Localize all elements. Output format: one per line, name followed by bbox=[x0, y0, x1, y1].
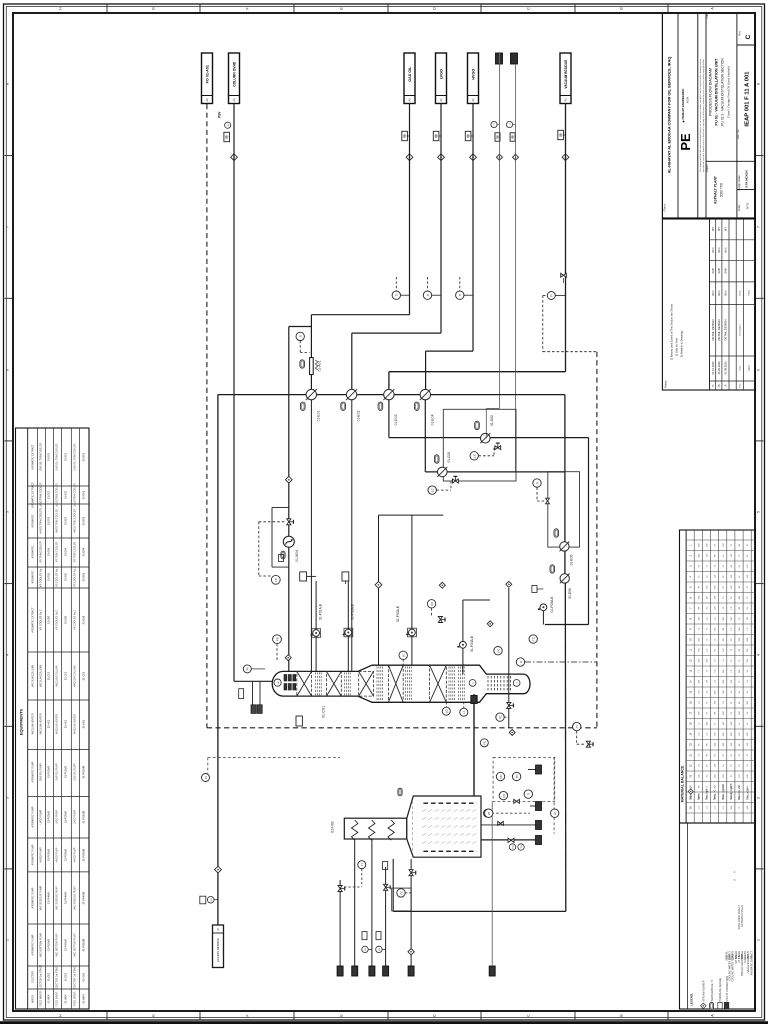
svg-text:GAS OIL TRIM COOLER: GAS OIL TRIM COOLER bbox=[56, 443, 59, 470]
svg-text:VACUUM COLUMN: VACUUM COLUMN bbox=[74, 665, 77, 686]
gauge on excess residue line bbox=[207, 896, 214, 903]
wire: hvgo product line bbox=[472, 104, 474, 352]
flow controller near boot bbox=[494, 647, 502, 655]
svg-text:01-C01: 01-C01 bbox=[82, 671, 86, 680]
material balance table outline bbox=[680, 530, 756, 823]
mixer 01-W04 bbox=[283, 536, 294, 547]
diamond gas oil line bbox=[406, 154, 413, 161]
scan edge black strip bottom bbox=[0, 1021, 768, 1024]
svg-text:PG: PG bbox=[365, 948, 367, 951]
svg-text:NTS: NTS bbox=[746, 203, 750, 209]
svg-text:PRESSURE, kg/cm2g: PRESSURE, kg/cm2g bbox=[719, 977, 722, 1001]
svg-text:TI: TI bbox=[575, 725, 579, 728]
pump 01-P02A/B bbox=[344, 628, 353, 637]
svg-text:TI: TI bbox=[535, 482, 539, 485]
svg-text:01-H01: 01-H01 bbox=[82, 719, 86, 728]
combustion control instruments bbox=[496, 772, 504, 780]
svg-text:FO 01-A01: FO 01-A01 bbox=[206, 65, 210, 83]
svg-text:MATERIAL BALANCE: MATERIAL BALANCE bbox=[681, 765, 685, 802]
equipment table row lines bbox=[36, 428, 38, 1009]
svg-text:SAB: SAB bbox=[724, 268, 728, 273]
svg-text:reproduced, copied or loaned,: reproduced, copied or loaned, used, or d… bbox=[702, 58, 705, 172]
pump 01-P04A/B bbox=[460, 641, 467, 648]
svg-text:VACUUM HEATER: VACUUM HEATER bbox=[74, 714, 77, 735]
svg-text:01-E03: 01-E03 bbox=[394, 414, 398, 425]
svg-text:01-P05A/B: 01-P05A/B bbox=[65, 939, 68, 951]
svg-text:01-E02: 01-E02 bbox=[48, 490, 51, 499]
tag box cws line bbox=[495, 133, 500, 141]
svg-text:01-E06: 01-E06 bbox=[568, 588, 572, 599]
small boxes near column head bbox=[239, 689, 244, 699]
diamond near column head bbox=[285, 655, 291, 661]
svg-text:01-P03A/B: 01-P03A/B bbox=[48, 849, 51, 861]
svg-text:Case1: Design Feed Oil (Less A: Case1: Design Feed Oil (Less Asphalt) bbox=[727, 66, 731, 118]
column internal distributors (dashed) bbox=[315, 672, 317, 695]
svg-text:VACUUM RESIDUE: VACUUM RESIDUE bbox=[564, 60, 568, 89]
svg-text:PSV: PSV bbox=[218, 111, 222, 118]
exchanger 01-E06 bbox=[560, 574, 569, 583]
level instruments under column bbox=[442, 707, 450, 715]
svg-text:HVGO: HVGO bbox=[472, 69, 476, 80]
svg-text:01-E04: 01-E04 bbox=[65, 547, 68, 556]
svg-text:AROMATIC EXTRACT: AROMATIC EXTRACT bbox=[32, 607, 35, 633]
svg-text:PU 01 - VACUUM DISTILLATION UN: PU 01 - VACUUM DISTILLATION UNIT bbox=[715, 58, 719, 126]
svg-text:IEAP 001 F 11 A 001: IEAP 001 F 11 A 001 bbox=[745, 71, 751, 127]
wire: atomizing line bbox=[339, 880, 341, 966]
svg-text:AROMATIC PUMP: AROMATIC PUMP bbox=[32, 761, 35, 782]
flow controller boot bottoms bbox=[496, 713, 504, 721]
svg-text:STREAM NUMBER: STREAM NUMBER bbox=[703, 980, 706, 1001]
gauge cws line bbox=[491, 121, 497, 127]
svg-text:A: A bbox=[724, 384, 728, 386]
svg-text:VACUUM HEATER: VACUUM HEATER bbox=[40, 713, 43, 734]
svg-text:TI: TI bbox=[360, 863, 364, 866]
equipment table outline bbox=[16, 428, 90, 1009]
svg-text:01-E05: 01-E05 bbox=[48, 572, 51, 581]
equipment table column lines bbox=[28, 485, 89, 487]
svg-text:VAC RESIDUE PUMP: VAC RESIDUE PUMP bbox=[56, 886, 59, 910]
tag box vacuum residue line bbox=[558, 130, 564, 139]
svg-text:ESTIMATED VALUE: ESTIMATED VALUE bbox=[741, 905, 744, 927]
svg-text:01-P05A/B: 01-P05A/B bbox=[48, 939, 51, 951]
svg-text:B: B bbox=[717, 384, 721, 386]
svg-text:VACUUM HEATER: VACUUM HEATER bbox=[56, 714, 59, 735]
svg-text:VR COOLER No.1: VR COOLER No.1 bbox=[40, 566, 43, 587]
diamond on W04 branch bbox=[285, 476, 292, 483]
svg-text:01-P03A,B: 01-P03A,B bbox=[396, 605, 400, 622]
svg-text:888: 888 bbox=[403, 133, 406, 138]
svg-text:AL-NIHAYAT AL EROGAA COMPANY F: AL-NIHAYAT AL EROGAA COMPANY FOR OIL SER… bbox=[667, 57, 672, 174]
valve on heater outlet bbox=[508, 838, 514, 842]
tag box gas oil line bbox=[402, 131, 408, 140]
level controller for G02 bbox=[470, 452, 478, 460]
zone reference ticks and letters - top band bbox=[106, 5, 108, 14]
exchanger 01-E02 bbox=[346, 389, 356, 399]
svg-text:HVGO TRIM COOLER: HVGO TRIM COOLER bbox=[40, 508, 43, 534]
svg-text:01-P01A,B: 01-P01A,B bbox=[318, 603, 322, 620]
svg-text:LVGO TRIM COOLER: LVGO TRIM COOLER bbox=[56, 483, 59, 507]
svg-text:LI: LI bbox=[462, 711, 466, 714]
svg-text:A1: A1 bbox=[471, 98, 475, 102]
exchanger 01-E05 bbox=[560, 542, 569, 551]
svg-text:01-H01: 01-H01 bbox=[65, 719, 68, 728]
heater radiant tubes (faint dashed rows) bbox=[422, 809, 426, 811]
svg-text:EXCESS RESIDUE: EXCESS RESIDUE bbox=[216, 938, 220, 962]
svg-text:01.10.2020: 01.10.2020 bbox=[711, 361, 715, 375]
material balance column lines bbox=[686, 539, 755, 541]
svg-text:01-G01: 01-G01 bbox=[65, 972, 68, 981]
temperature instrument near 01-A01 bbox=[296, 332, 304, 340]
svg-text:01-W04: 01-W04 bbox=[48, 994, 51, 1003]
svg-text:VAC BOTTOM PUMP: VAC BOTTOM PUMP bbox=[40, 933, 43, 958]
svg-text:01-E01: 01-E01 bbox=[317, 410, 321, 421]
temperature instrument second stage bbox=[533, 479, 541, 487]
svg-text:VACUUM COLUMN: VACUUM COLUMN bbox=[56, 665, 59, 686]
svg-text:PI: PI bbox=[487, 812, 491, 815]
valve under 01-G01 bbox=[453, 476, 459, 483]
svg-text:MY: MY bbox=[717, 227, 721, 231]
off-page flag FO 01-A01 bbox=[202, 53, 213, 104]
svg-text:LVGO PUMP: LVGO PUMP bbox=[74, 810, 77, 824]
svg-text:FEED MIXER: FEED MIXER bbox=[40, 991, 43, 1006]
wire: steam line 3 bbox=[385, 867, 387, 966]
svg-text:01-E02: 01-E02 bbox=[82, 490, 86, 499]
svg-text:EQUIPMENTS: EQUIPMENTS bbox=[19, 708, 24, 735]
svg-text:VR TRIM COOLER: VR TRIM COOLER bbox=[56, 541, 59, 562]
svg-text:01-P05A/B: 01-P05A/B bbox=[82, 938, 86, 951]
diamond vacuum residue line bbox=[562, 154, 569, 161]
utility terminal boxes at bottom bbox=[337, 966, 343, 976]
svg-text:VR TRIM COOLER: VR TRIM COOLER bbox=[74, 541, 77, 562]
tag box lvgo line bbox=[433, 131, 439, 140]
heater convection coils (zigzag) bbox=[352, 820, 358, 840]
svg-text:TI: TI bbox=[426, 294, 430, 297]
svg-text:01-P02A/B: 01-P02A/B bbox=[65, 811, 68, 823]
svg-text:AROMATIC: AROMATIC bbox=[32, 570, 35, 583]
wire: E01 outlet down to column bbox=[310, 400, 312, 672]
flow indicator on vacuum residue line bbox=[547, 292, 555, 300]
tag box cwr line bbox=[510, 133, 515, 141]
svg-text:EJECTOR: EJECTOR bbox=[32, 971, 35, 983]
svg-text:01-W04: 01-W04 bbox=[82, 994, 86, 1004]
svg-text:A1: A1 bbox=[232, 98, 236, 102]
svg-text:HVGO TRIM COOLER: HVGO TRIM COOLER bbox=[74, 509, 77, 534]
svg-text:VR COOLER No.2: VR COOLER No.2 bbox=[56, 609, 59, 629]
material balance row lines bbox=[693, 530, 695, 823]
level controller for G01 bbox=[428, 486, 436, 494]
svg-text:PE: PE bbox=[678, 133, 693, 151]
off-page flag VACUUM RESIDUE bbox=[560, 53, 571, 104]
svg-text:LVGO: LVGO bbox=[440, 69, 444, 79]
svg-text:7: 7 bbox=[6, 226, 10, 228]
title block outline bbox=[662, 13, 755, 218]
utility flag CWS bbox=[496, 53, 503, 64]
svg-text:PG: PG bbox=[513, 845, 515, 848]
svg-text:TEMPERATURE, °C: TEMPERATURE, °C bbox=[711, 979, 714, 1001]
svg-text:MY: MY bbox=[724, 227, 728, 231]
instrument signal dashed line (right) bbox=[596, 352, 598, 728]
svg-text:A1: A1 bbox=[205, 98, 209, 102]
svg-text:TG: TG bbox=[521, 845, 523, 848]
column boot internals (grid) bbox=[487, 676, 489, 692]
svg-text:FI: FI bbox=[204, 776, 208, 779]
svg-text:PRIMARY ENGINEERING: PRIMARY ENGINEERING bbox=[681, 89, 685, 120]
wire: E04 outlet header bbox=[424, 400, 426, 472]
diamond on excess residue line bbox=[215, 866, 222, 873]
ejector 01-G01 bbox=[438, 467, 448, 477]
flow controller P04 discharge bbox=[427, 600, 435, 608]
svg-text:01-E05: 01-E05 bbox=[65, 572, 68, 581]
svg-text:KLN: KLN bbox=[724, 290, 728, 295]
svg-text:VR COOLER No.1: VR COOLER No.1 bbox=[56, 566, 59, 586]
svg-text:MIXER: MIXER bbox=[32, 995, 35, 1003]
svg-text:TI: TI bbox=[299, 335, 303, 338]
wire: vacuum residue product line bbox=[565, 104, 567, 372]
valves on heater utility lines bbox=[338, 886, 345, 892]
svg-text:GAS OIL TRIM COOLER: GAS OIL TRIM COOLER bbox=[74, 443, 77, 470]
wire: fuel gas line bbox=[410, 859, 412, 966]
svg-text:VAC BOTTOM PUMP: VAC BOTTOM PUMP bbox=[56, 933, 59, 957]
svg-text:01-C01: 01-C01 bbox=[322, 706, 326, 718]
svg-text:01-G01: 01-G01 bbox=[82, 972, 86, 981]
svg-text:DETAIL DESIGN: DETAIL DESIGN bbox=[724, 320, 728, 341]
wire: column overhead line bbox=[233, 104, 235, 682]
off-page flag EXCESS RESIDUE (bottom) bbox=[213, 925, 224, 968]
legend box outline bbox=[680, 823, 756, 1009]
pump 01-P05A/B bbox=[540, 604, 547, 611]
svg-text:Design Grade: Design Grade bbox=[738, 175, 741, 191]
tag box on transfer line bbox=[471, 696, 477, 704]
svg-text:6: 6 bbox=[6, 369, 10, 371]
heater 01-H01 convection section bbox=[344, 818, 407, 839]
temperature instrument at battery limit bbox=[573, 722, 581, 730]
svg-text:888: 888 bbox=[511, 134, 514, 139]
svg-text:888: 888 bbox=[496, 134, 499, 139]
svg-text:4: 4 bbox=[6, 654, 10, 656]
svg-text:ASPHALT PLANT: ASPHALT PLANT bbox=[714, 175, 718, 204]
svg-text:A1: A1 bbox=[564, 98, 568, 102]
wire: cooling water return line bbox=[515, 64, 517, 472]
svg-text:FEED MIXER: FEED MIXER bbox=[74, 991, 77, 1006]
wire: E03 outlet to ejector header bbox=[388, 400, 390, 438]
valves in combustion cluster bbox=[514, 799, 520, 803]
svg-text:KPA NEXEN: KPA NEXEN bbox=[745, 170, 749, 187]
diamond cws line bbox=[496, 154, 502, 160]
svg-text:FEED MIXER: FEED MIXER bbox=[56, 991, 59, 1006]
wire: bfw line 2 bbox=[371, 839, 373, 966]
svg-text:HVGO PUMP: HVGO PUMP bbox=[74, 847, 77, 862]
svg-text:2: 2 bbox=[6, 939, 10, 941]
svg-text:VACUUM HEATER: VACUUM HEATER bbox=[32, 713, 35, 734]
wire: boot bottoms line bbox=[508, 588, 510, 728]
svg-text:EJECTOR 1st STAGE: EJECTOR 1st STAGE bbox=[56, 965, 59, 989]
battery limit dashed line (bottom) bbox=[207, 727, 597, 729]
svg-text:Rev.: Rev. bbox=[738, 30, 742, 35]
svg-text:01-E04: 01-E04 bbox=[48, 547, 51, 556]
svg-text:01-G01: 01-G01 bbox=[48, 972, 51, 981]
svg-text:Notes:: Notes: bbox=[664, 380, 668, 388]
svg-text:888: 888 bbox=[559, 132, 562, 137]
svg-text:A1: A1 bbox=[408, 98, 412, 102]
material balance title bbox=[685, 530, 687, 823]
svg-text:AROMATIC: AROMATIC bbox=[32, 545, 35, 558]
wire: line to terminal 492 bbox=[491, 801, 493, 966]
svg-text:GAS OIL TRIM COOLER: GAS OIL TRIM COOLER bbox=[40, 443, 43, 471]
svg-text:VAC RESIDUE PUMP: VAC RESIDUE PUMP bbox=[40, 885, 43, 910]
svg-text:F: F bbox=[246, 7, 250, 9]
wire: W04 branch from main line bbox=[288, 327, 290, 537]
svg-text:DETAIL DESIGN: DETAIL DESIGN bbox=[717, 320, 721, 341]
svg-text:01-E04: 01-E04 bbox=[430, 414, 434, 425]
svg-text:EJECTOR 1st STAGE: EJECTOR 1st STAGE bbox=[74, 965, 77, 989]
wire: E02 outlet down to column bbox=[351, 400, 353, 672]
svg-text:PU 01.3 - VACUUM DISTILLATION: PU 01.3 - VACUUM DISTILLATION SECTION bbox=[721, 58, 725, 126]
diamonds near boot bbox=[439, 582, 445, 588]
column packing beds (X-hatch) bbox=[297, 671, 312, 696]
svg-text:VR TRIM COOLER: VR TRIM COOLER bbox=[40, 541, 43, 563]
svg-text:01-P04A,B: 01-P04A,B bbox=[470, 635, 474, 652]
svg-text:01-P02A/B: 01-P02A/B bbox=[48, 811, 51, 823]
svg-text:LEGEND:: LEGEND: bbox=[690, 993, 694, 1006]
column left head internals bbox=[284, 675, 287, 682]
svg-text:01-E04: 01-E04 bbox=[82, 547, 86, 556]
diamond cwr line bbox=[513, 154, 519, 160]
svg-text:LI: LI bbox=[519, 661, 523, 664]
lc instrument right of heater bbox=[551, 809, 559, 817]
svg-text:01-C01: 01-C01 bbox=[65, 671, 68, 680]
svg-text:888: 888 bbox=[435, 133, 438, 138]
svg-text:This drawing and the informati: This drawing and the information contain… bbox=[699, 58, 702, 172]
svg-text:GAS OIL: GAS OIL bbox=[408, 66, 412, 82]
flow element FE bbox=[273, 635, 282, 644]
pressure indicator near column head bbox=[243, 665, 251, 673]
svg-text:5: 5 bbox=[757, 511, 761, 513]
svg-text:01-G02: 01-G02 bbox=[490, 415, 494, 426]
svg-text:01-W04: 01-W04 bbox=[65, 994, 68, 1003]
svg-text:AROMATIC EXTRACT: AROMATIC EXTRACT bbox=[750, 950, 753, 975]
svg-text:KLN: KLN bbox=[724, 247, 728, 252]
heater 01-H01 radiant box bbox=[407, 796, 481, 857]
svg-text:HVGO TRIM COOLER: HVGO TRIM COOLER bbox=[56, 509, 59, 534]
valve on vacuum residue line bbox=[561, 273, 567, 277]
svg-text:7: 7 bbox=[757, 226, 761, 228]
svg-text:VR COOLER No.2: VR COOLER No.2 bbox=[40, 609, 43, 630]
exchanger 01-E03 bbox=[384, 389, 394, 399]
svg-text:Description: Description bbox=[738, 324, 741, 336]
svg-text:AROMATIC EXTRACT: AROMATIC EXTRACT bbox=[32, 444, 35, 470]
off-page flag LVGO bbox=[436, 53, 447, 104]
svg-text:5: 5 bbox=[6, 511, 10, 513]
diamond above heater cluster bbox=[509, 730, 515, 736]
svg-text:8: 8 bbox=[757, 83, 761, 85]
svg-text:Doc. No.: Doc. No. bbox=[736, 129, 740, 139]
instruments on heater utility lines bbox=[358, 861, 366, 869]
svg-text:2000 TPD: 2000 TPD bbox=[720, 182, 724, 197]
svg-text:FI: FI bbox=[550, 294, 554, 297]
heater inner refractory dashed line bbox=[412, 801, 414, 853]
svg-text:HVGO PUMP: HVGO PUMP bbox=[56, 847, 59, 862]
svg-text:Scale: Scale bbox=[737, 204, 741, 211]
svg-text:01.08.2020: 01.08.2020 bbox=[724, 361, 728, 375]
svg-text:AROMATIC: AROMATIC bbox=[32, 514, 35, 527]
svg-text:LVGO PUMP: LVGO PUMP bbox=[56, 810, 59, 824]
revision table rows bbox=[715, 219, 717, 390]
svg-text:PG: PG bbox=[379, 948, 381, 951]
svg-text:3: 3 bbox=[757, 797, 761, 799]
svg-text:2) Only for Flow: 2) Only for Flow bbox=[675, 338, 679, 356]
svg-text:PROCESS FLOW DIAGRAM: PROCESS FLOW DIAGRAM bbox=[709, 68, 713, 116]
temperature controller near boot bbox=[529, 635, 537, 643]
tag box fuel gas bbox=[383, 862, 388, 870]
diamond hvgo line bbox=[470, 154, 477, 161]
gauge cwr line bbox=[506, 121, 512, 127]
svg-text:2: 2 bbox=[757, 939, 761, 941]
diamond lvgo line bbox=[438, 154, 445, 161]
svg-text:01-E02: 01-E02 bbox=[65, 490, 68, 499]
svg-text:01-P02A/B: 01-P02A/B bbox=[82, 810, 86, 823]
flow indicator bottom left bbox=[202, 774, 210, 782]
notes box bbox=[709, 219, 711, 390]
stream diamond on overhead line bbox=[231, 154, 238, 161]
svg-text:15.09.2020: 15.09.2020 bbox=[717, 361, 721, 375]
svg-text:AROMATIC PUMP: AROMATIC PUMP bbox=[32, 844, 35, 865]
svg-text:COLUMN OVHD: COLUMN OVHD bbox=[233, 61, 237, 87]
svg-text:01-E06: 01-E06 bbox=[48, 615, 51, 624]
svg-text:AROMATIC EXTRACT: AROMATIC EXTRACT bbox=[32, 482, 35, 508]
svg-text:8: 8 bbox=[6, 83, 10, 85]
svg-text:AROMATIC PUMP: AROMATIC PUMP bbox=[32, 887, 35, 908]
svg-text:Title: Title bbox=[705, 14, 709, 19]
svg-text:01-P04A/B: 01-P04A/B bbox=[65, 892, 68, 904]
svg-text:EJECTOR 1st STAGE: EJECTOR 1st STAGE bbox=[40, 964, 43, 989]
svg-text:01-E05: 01-E05 bbox=[570, 555, 574, 566]
valve P04 discharge bbox=[438, 617, 445, 623]
valve on boot bottoms bbox=[507, 702, 514, 708]
heater radiant header dashed lines bbox=[423, 802, 476, 804]
small box on signal line bbox=[279, 555, 284, 562]
svg-text:01-E06: 01-E06 bbox=[65, 615, 68, 624]
exchanger 01-E04 bbox=[420, 389, 430, 399]
svg-text:01-E02: 01-E02 bbox=[357, 410, 361, 421]
svg-text:Client:: Client: bbox=[663, 203, 667, 211]
svg-text:01-E01: 01-E01 bbox=[65, 452, 68, 461]
svg-text:KLN: KLN bbox=[717, 290, 721, 295]
svg-text:Appd: Appd bbox=[748, 365, 751, 371]
heater burner fuel connections bbox=[536, 765, 542, 774]
svg-text:VACUUM COLUMN: VACUUM COLUMN bbox=[40, 665, 43, 687]
svg-text:01-P01A/B: 01-P01A/B bbox=[65, 766, 68, 778]
svg-text:01-P04A/B: 01-P04A/B bbox=[48, 892, 51, 904]
wire: main residue run-down line bbox=[217, 395, 219, 925]
svg-text:G: G bbox=[152, 1014, 156, 1017]
svg-text:01-C01: 01-C01 bbox=[48, 671, 51, 680]
svg-text:Rev.: Rev. bbox=[739, 383, 741, 388]
svg-text:LVGO PUMP: LVGO PUMP bbox=[40, 809, 43, 824]
svg-text:AROMATIC PUMP: AROMATIC PUMP bbox=[32, 806, 35, 827]
valve near battery limit bbox=[586, 741, 593, 747]
off-page flag GAS OIL bbox=[404, 53, 415, 104]
flow controller FC bbox=[271, 575, 280, 584]
svg-text:01-E03: 01-E03 bbox=[48, 516, 51, 525]
flow controller fuel gas bbox=[397, 889, 405, 897]
wire: gauge drops from overhead line bbox=[252, 681, 254, 704]
ejector 01-G02 bbox=[481, 433, 491, 443]
svg-text:Drwn: Drwn bbox=[738, 290, 741, 296]
svg-text:01-P01A/B: 01-P01A/B bbox=[82, 765, 86, 778]
wire: bfw line 1 bbox=[354, 839, 356, 966]
svg-text:KLN: KLN bbox=[711, 290, 715, 295]
svg-text:3: 3 bbox=[6, 797, 10, 799]
